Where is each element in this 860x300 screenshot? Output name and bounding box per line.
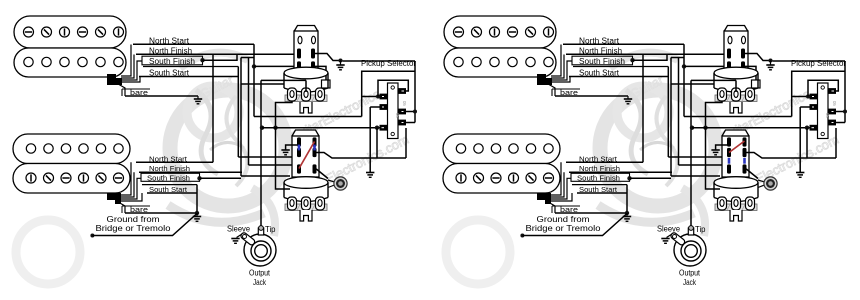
svg-text:South Start: South Start: [149, 69, 190, 78]
svg-text:bare: bare: [560, 205, 578, 214]
svg-text:Tip: Tip: [265, 225, 276, 234]
svg-text:05: 05: [402, 101, 407, 106]
svg-text:North Finish: North Finish: [579, 166, 620, 173]
svg-text:05: 05: [395, 113, 400, 118]
svg-text:South Start: South Start: [579, 69, 620, 78]
svg-text:North Start: North Start: [579, 156, 617, 163]
svg-text:South Start: South Start: [579, 187, 617, 194]
svg-text:South Finish: South Finish: [577, 176, 620, 183]
svg-text:05: 05: [825, 113, 830, 118]
svg-text:North Finish: North Finish: [149, 46, 192, 55]
svg-text:Jack: Jack: [253, 278, 267, 287]
svg-text:Sleeve: Sleeve: [657, 225, 680, 234]
svg-text:Tip: Tip: [695, 225, 706, 234]
svg-text:bare: bare: [560, 88, 578, 97]
svg-text:05: 05: [832, 101, 837, 106]
svg-text:Bridge or Tremolo: Bridge or Tremolo: [526, 223, 601, 233]
svg-text:Pickup Selector: Pickup Selector: [361, 59, 416, 68]
svg-text:bare: bare: [130, 205, 148, 214]
svg-text:North Finish: North Finish: [149, 166, 190, 173]
svg-text:bare: bare: [130, 88, 148, 97]
svg-text:South Start: South Start: [149, 187, 187, 194]
svg-text:Output: Output: [249, 269, 271, 278]
svg-text:Bridge or Tremolo: Bridge or Tremolo: [96, 223, 171, 233]
svg-text:South Finish: South Finish: [149, 57, 195, 66]
svg-text:North Start: North Start: [579, 36, 620, 45]
svg-text:Output: Output: [679, 269, 701, 278]
svg-text:Sleeve: Sleeve: [227, 225, 250, 234]
svg-text:Jack: Jack: [683, 278, 697, 287]
svg-text:South Finish: South Finish: [579, 57, 625, 66]
svg-text:North Start: North Start: [149, 156, 187, 163]
svg-text:North Finish: North Finish: [579, 46, 622, 55]
svg-text:Pickup Selector: Pickup Selector: [791, 59, 846, 68]
svg-text:South Finish: South Finish: [147, 176, 190, 183]
svg-text:North Start: North Start: [149, 36, 190, 45]
